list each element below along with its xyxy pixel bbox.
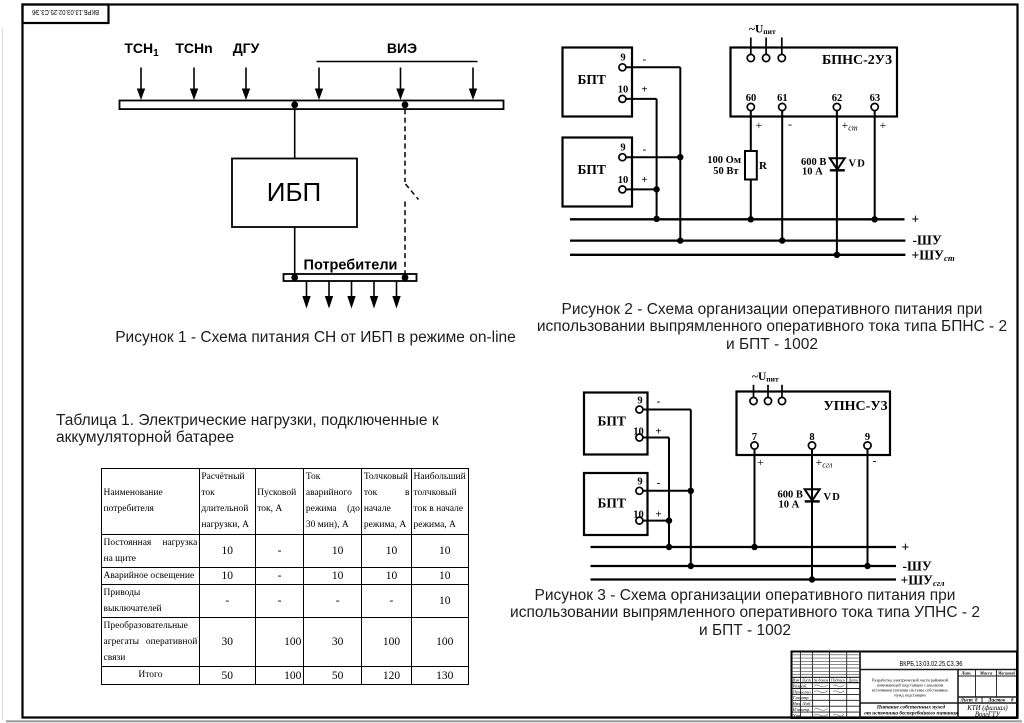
consumer bus bar	[284, 274, 417, 281]
page bottom edge shadow	[6, 720, 1022, 722]
svg-text:10: 10	[618, 85, 629, 96]
svg-text:Лит.: Лит.	[960, 671, 971, 676]
label ~Uпит (fig3)	[752, 371, 779, 384]
svg-text:Подпись: Подпись	[830, 678, 845, 682]
AC input terminal 1 (fig3)	[750, 385, 757, 405]
approval row labels	[792, 683, 812, 718]
svg-text:9: 9	[637, 477, 642, 488]
junction БПТ lower pin9 joins rail (fig3)	[688, 488, 694, 494]
block БПТ upper (fig2)	[563, 48, 633, 117]
resistor R (fig2)	[745, 151, 757, 180]
wire terminal 7 to + bus (fig3)	[754, 449, 756, 547]
wire vertical plus rail x=656 (fig2)	[656, 99, 658, 219]
arrow load 1	[302, 281, 310, 309]
diode VD (fig3)	[805, 489, 820, 501]
pin 10 (БПТ lower fig3)	[633, 510, 644, 525]
document code box (top-left, rotated)	[23, 5, 109, 24]
svg-text:+: +	[912, 212, 920, 227]
svg-text:нужд подстанции: нужд подстанции	[894, 693, 926, 698]
svg-text:Листов: Листов	[987, 698, 1006, 703]
wire terminal 60 down to resistor (fig2)	[750, 111, 752, 151]
polarity + (БПТ lower pin10 fig2)	[641, 174, 647, 186]
polarity - (БПТ lower pin9 fig3)	[657, 477, 661, 489]
label Потребители	[304, 258, 398, 274]
caption figure 1	[66, 329, 566, 347]
AC input terminal 2 (fig3)	[764, 385, 771, 405]
svg-text:ТСНn: ТСНn	[175, 40, 212, 56]
svg-text:63: 63	[870, 93, 881, 104]
AC input terminal 1 (fig2)	[747, 38, 754, 62]
svg-text:Лист: Лист	[960, 698, 973, 703]
svg-text:50 Вт: 50 Вт	[713, 166, 739, 177]
block БПНС-2У3 (fig2)	[731, 48, 898, 117]
svg-text:Потребители: Потребители	[304, 258, 398, 274]
title block Лист/Листов row	[960, 698, 1015, 703]
bus + (fig3)	[591, 539, 910, 554]
wire terminal 63 down to + bus (fig2)	[874, 111, 876, 220]
svg-text:+ст: +ст	[842, 118, 858, 133]
wire БПТ upper pin9 to vertical (fig3)	[643, 409, 691, 411]
terminal 8 (fig3)	[808, 432, 815, 449]
caption figure 2	[522, 301, 1022, 354]
junction БПТ lower pin9 joins x=680 (fig2)	[677, 154, 683, 160]
title block outer frame	[792, 652, 1018, 719]
block БПТ lower (fig2)	[563, 138, 633, 207]
block УПНС-У3 (fig3)	[737, 392, 891, 456]
svg-text:+: +	[655, 426, 661, 438]
node: consumer bus right	[402, 274, 409, 281]
junction 62 on +ШУст bus (fig2)	[834, 252, 840, 258]
document code text (rotated 180)	[32, 8, 99, 15]
wire БПТ lower pin10 to vertical (fig2)	[626, 188, 657, 190]
wire resistor to plus bus (fig2)	[750, 180, 752, 220]
arrow ВИЭ-1 to bus	[315, 68, 323, 101]
svg-text:-: -	[657, 396, 661, 408]
wire vertical minus rail x=690.8 (fig3)	[690, 410, 692, 567]
svg-text:ВолгГТУ: ВолгГТУ	[975, 712, 1002, 719]
AC input terminal 2 (fig2)	[763, 38, 770, 62]
wire terminal 61 down to -ШУ bus (fig2)	[781, 111, 783, 241]
switch blade (bypass, open)	[406, 184, 419, 200]
svg-text:от источника бесперебойного пи: от источника бесперебойного питания	[864, 710, 958, 717]
wire БПТ lower pin9 to vertical (fig2)	[626, 156, 680, 158]
junction 9 on -ШУ bus (fig3)	[864, 563, 870, 569]
wire vertical minus rail x=680 (fig2)	[679, 67, 681, 240]
pin 9 (БПТ lower fig2)	[619, 143, 626, 161]
terminal 60 (fig2)	[746, 93, 757, 111]
page left edge shadow	[2, 28, 3, 720]
svg-text:~Uпит: ~Uпит	[749, 24, 776, 37]
wire terminal 8 to +ШУсгл bus (fig3)	[811, 449, 813, 579]
value 100 Ом 50 Вт (fig2)	[707, 155, 741, 177]
svg-text:+: +	[880, 118, 887, 132]
polarity - (БПТ upper pin9 fig3)	[657, 396, 661, 408]
svg-text:+: +	[902, 539, 910, 554]
arrow load 2	[325, 281, 333, 309]
label ВИЭ	[387, 40, 417, 56]
svg-text:Н контр.: Н контр.	[792, 707, 811, 712]
wire vertical plus rail x=669 (fig3)	[668, 438, 670, 548]
junction 61 on -ШУ bus (fig2)	[779, 237, 785, 243]
svg-text:VD: VD	[849, 159, 867, 170]
project description text	[872, 678, 949, 698]
junction pin10 rail on + bus (fig2)	[653, 216, 659, 222]
pin 10 (БПТ lower fig2)	[618, 175, 629, 193]
designator VD (fig2)	[849, 159, 867, 170]
wire terminal 62 down to +ШУст bus (fig2)	[836, 111, 838, 255]
svg-text:БПТ: БПТ	[578, 72, 606, 87]
organisation КТИ (филиал) ВолгГТУ	[966, 705, 1008, 719]
label ДГУ	[233, 40, 260, 56]
svg-text:-ШУ: -ШУ	[913, 233, 942, 248]
pin 10 (БПТ upper fig3)	[633, 427, 644, 442]
svg-text:+: +	[756, 118, 763, 132]
svg-text:Изм: Изм	[792, 678, 800, 682]
Table 1: electrical loads	[101, 468, 469, 685]
svg-text:9: 9	[620, 53, 625, 64]
revision table headers	[792, 678, 858, 682]
value 600 В 10 А (fig3)	[778, 490, 803, 511]
svg-text:БПТ: БПТ	[598, 414, 626, 429]
junction 63 on + bus (fig2)	[872, 216, 878, 222]
svg-text:9: 9	[865, 432, 870, 443]
polarity + under 7 (fig3)	[757, 455, 764, 469]
pin 10 (БПТ upper fig2)	[618, 85, 629, 103]
polarity + (БПТ upper pin10 fig3)	[655, 426, 661, 438]
svg-text:60: 60	[746, 93, 757, 104]
svg-text:ВКРБ.13.03.02.25.С3.Э6: ВКРБ.13.03.02.25.С3.Э6	[32, 8, 99, 15]
polarity - (БПТ upper pin9 fig2)	[643, 54, 647, 66]
svg-text:Питание собственных нужд: Питание собственных нужд	[876, 704, 946, 711]
table title	[56, 412, 451, 446]
svg-text:БПТ: БПТ	[578, 162, 606, 177]
ВИЭ group line	[317, 61, 478, 63]
terminal 7 (fig3)	[751, 432, 758, 449]
svg-text:БПНС-2У3: БПНС-2У3	[822, 53, 892, 68]
polarity - (БПТ lower pin9 fig2)	[643, 144, 647, 156]
designator R (fig2)	[759, 160, 768, 172]
svg-text:Масштаб: Масштаб	[997, 671, 1015, 676]
svg-text:Масса: Масса	[979, 671, 993, 676]
polarity - under 9 (fig3)	[873, 454, 877, 468]
svg-text:БПТ: БПТ	[598, 496, 626, 511]
block БПТ upper (fig3)	[584, 393, 648, 455]
title block grid lines	[792, 652, 1018, 719]
arrow ТСН1 to bus	[137, 68, 145, 101]
terminal 63 (fig2)	[870, 93, 881, 111]
svg-text:ВКРБ.13.03.02.25.С3.Э6: ВКРБ.13.03.02.25.С3.Э6	[900, 659, 963, 668]
AC input terminal 3 (fig3)	[778, 385, 785, 405]
bus + (fig2)	[570, 212, 919, 227]
wire bus to ИБП	[294, 109, 296, 159]
svg-text:Нач. Лаб: Нач. Лаб	[792, 701, 811, 706]
svg-text:61: 61	[777, 93, 788, 104]
document code in title block	[900, 659, 963, 668]
svg-text:10: 10	[633, 510, 644, 521]
designator VD (fig3)	[824, 492, 842, 503]
terminal 61 (fig2)	[777, 93, 788, 111]
pin 9 (БПТ lower fig3)	[636, 477, 643, 495]
block ИБП	[232, 159, 357, 228]
pin 9 (БПТ upper fig2)	[619, 53, 626, 71]
polarity + (БПТ lower pin10 fig3)	[655, 509, 661, 521]
AC input terminal 3 (fig2)	[778, 38, 785, 62]
node: bus tap to ИБП	[291, 101, 298, 108]
svg-text:+: +	[655, 509, 661, 521]
bus +ШУст (fig2)	[570, 247, 955, 263]
svg-text:-: -	[657, 477, 661, 489]
junction 7 on + bus (fig3)	[751, 544, 757, 550]
svg-text:Разраб.: Разраб.	[792, 683, 808, 688]
caption figure 3	[495, 587, 995, 640]
pin 9 (БПТ upper fig3)	[636, 395, 643, 413]
junction БПТ lower pin10 joins x=656 (fig2)	[653, 186, 659, 192]
bypass dashed wire (lower)	[404, 202, 406, 275]
arrow load 4	[370, 281, 378, 309]
bus -ШУ (fig2)	[570, 233, 942, 248]
svg-text:100 Ом: 100 Ом	[707, 155, 741, 166]
wire БПТ lower pin10 to vertical (fig3)	[643, 520, 669, 522]
bus +ШУсгл (fig3)	[591, 572, 945, 588]
svg-text:10: 10	[633, 427, 644, 438]
svg-text:Т контр.: Т контр.	[793, 695, 810, 700]
polarity +ст under 62 (fig2)	[842, 118, 858, 133]
polarity +сгл under 8 (fig3)	[816, 455, 833, 470]
svg-text:Дата: Дата	[848, 678, 858, 682]
polarity + (БПТ upper pin10 fig2)	[641, 84, 647, 96]
junction pin10 rail on + bus (fig3)	[666, 544, 672, 550]
arrow load 3	[347, 281, 355, 309]
svg-text:+: +	[641, 84, 647, 96]
svg-text:10 А: 10 А	[802, 167, 823, 178]
junction БПТ lower pin10 joins rail (fig3)	[666, 517, 672, 523]
wire БПТ upper pin9 to vertical (fig2)	[626, 66, 680, 68]
svg-text:9: 9	[620, 143, 625, 154]
arrow ВИЭ-2 to bus	[396, 68, 404, 101]
svg-text:-: -	[788, 117, 792, 131]
svg-text:-: -	[643, 144, 647, 156]
diode VD (fig2)	[830, 158, 845, 170]
node: consumer bus left	[291, 274, 298, 281]
sheet title: Питание собственных нужд	[864, 704, 958, 717]
svg-text:VD: VD	[824, 492, 842, 503]
svg-text:+сгл: +сгл	[816, 455, 833, 470]
signature scribbles	[814, 685, 844, 716]
wire БПТ upper pin10 to vertical (fig2)	[626, 98, 657, 100]
svg-text:10 А: 10 А	[779, 500, 800, 511]
svg-text:9: 9	[637, 395, 642, 406]
junction pin9 rail on -ШУ bus (fig2)	[677, 237, 683, 243]
svg-text:-: -	[643, 54, 647, 66]
block БПТ lower (fig3)	[584, 473, 648, 535]
svg-text:62: 62	[832, 93, 843, 104]
wire БПТ lower pin9 to vertical (fig3)	[643, 490, 691, 492]
wire terminal 9 to -ШУ bus (fig3)	[867, 449, 869, 566]
svg-text:УПНС-У3: УПНС-У3	[824, 399, 888, 414]
polarity + under 63 (fig2)	[880, 118, 887, 132]
title block small headers Лит Масса Масштаб	[960, 671, 1015, 676]
svg-text:+ШУст: +ШУст	[912, 247, 955, 263]
polarity + under 60 (fig2)	[756, 118, 763, 132]
node: bus tap to bypass	[402, 101, 409, 108]
value 600 В 10 А (fig2)	[801, 157, 826, 178]
svg-text:-ШУ: -ШУ	[903, 558, 932, 573]
arrow ДГУ to bus	[242, 68, 250, 101]
svg-text:№ докум: № докум	[813, 678, 829, 682]
terminal 62 (fig2)	[832, 93, 843, 111]
arrow load 5	[392, 281, 400, 309]
svg-text:~Uпит: ~Uпит	[752, 371, 779, 384]
svg-text:R: R	[759, 160, 768, 172]
label ТСНn	[175, 40, 212, 56]
terminal 9 (fig3)	[864, 432, 871, 449]
junction pin9 rail on -ШУ bus (fig3)	[688, 563, 694, 569]
bus -ШУ (fig3)	[591, 558, 932, 573]
svg-text:-: -	[873, 454, 877, 468]
wire БПТ upper pin10 to vertical (fig3)	[643, 437, 669, 439]
svg-text:ИБП: ИБП	[267, 177, 321, 207]
arrow ВИЭ-3 to bus	[469, 68, 477, 101]
svg-text:ВИЭ: ВИЭ	[387, 40, 417, 56]
svg-text:10: 10	[618, 175, 629, 186]
wire ИБП to consumer bus	[294, 227, 296, 274]
svg-text:+: +	[757, 455, 764, 469]
svg-text:ТСН1: ТСН1	[124, 40, 159, 59]
label ~Uпит (fig2)	[749, 24, 776, 37]
svg-text:Лист: Лист	[801, 678, 811, 682]
polarity - under 61 (fig2)	[788, 117, 792, 131]
svg-text:8: 8	[809, 432, 814, 443]
arrow ТСНn to bus	[190, 68, 198, 101]
junction resistor on plus bus (fig2)	[748, 216, 754, 222]
svg-text:ДГУ: ДГУ	[233, 40, 260, 56]
svg-text:Утв.: Утв.	[793, 713, 803, 718]
label ТСН1	[124, 40, 159, 59]
svg-text:Проверил: Проверил	[792, 689, 812, 694]
svg-text:+: +	[641, 174, 647, 186]
bypass dashed wire (upper)	[404, 109, 406, 182]
svg-text:7: 7	[752, 432, 757, 443]
main AC bus bar	[120, 101, 504, 110]
junction 8 on +ШУсгл bus (fig3)	[809, 576, 815, 582]
